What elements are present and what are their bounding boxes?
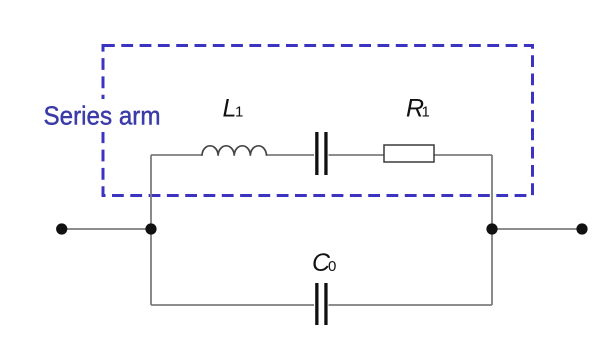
svg-text:1: 1: [235, 104, 243, 121]
svg-text:Series arm: Series arm: [44, 101, 161, 131]
svg-text:0: 0: [328, 258, 336, 275]
svg-text:1: 1: [422, 104, 430, 121]
